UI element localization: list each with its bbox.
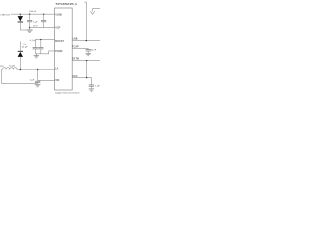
svg-text:LX: LX [55,68,58,71]
node junction VLNB/C1 [29,14,30,15]
svg-text:1 µF: 1 µF [95,86,100,88]
svg-text:1 µF: 1 µF [33,22,38,24]
capacitor C1 100nF VLNB [27,14,32,30]
capacitor C7 VCC 1uF [89,85,94,89]
wire LX net [17,69,55,71]
inductor L1 10uH [2,68,17,70]
wire VCC net [72,78,91,85]
wire VCP net [30,27,55,29]
svg-text:100 nF: 100 nF [29,11,36,13]
diode D2 LX clamp [18,41,23,69]
wire VLNB net top [11,13,55,15]
svg-text:Copyright © 2016, Texas Instru: Copyright © 2016, Texas Instruments [55,92,80,95]
node junction VLNB/C2 [43,14,44,15]
wire VIN left drop [2,70,38,84]
node junction C1/VCP [29,27,30,28]
wire PGND rail [35,51,54,54]
svg-text:EXTM: EXTM [72,58,79,61]
svg-text:LNB: LNB [73,38,78,41]
node junction BOOST/C4 [40,39,41,40]
svg-text:1 µF: 1 µF [30,80,35,82]
ground under C1 [27,30,33,32]
node junction VCC/EXTM [86,77,87,78]
svg-text:22 nF: 22 nF [91,50,97,52]
ground under C3/C4 rail [34,54,40,58]
wire VIN net [38,79,55,81]
svg-text:LNB OUT: LNB OUT [1,14,11,16]
wire LNB vertical to top [84,2,86,41]
svg-text:VCP: VCP [55,27,60,30]
svg-text:22 µF: 22 µF [22,46,28,48]
capacitor C5 input 1uF [35,70,40,84]
capacitor C4 (boost cap) [38,40,43,54]
diode D1 TVS on VLNB [18,14,23,30]
IC U1 TPS65235-1 [55,2,78,90]
wire D1 cathode to ground rail [20,29,32,31]
wire TCAP net [72,47,88,49]
wire LNB net right [72,40,100,42]
svg-text:10 µH: 10 µH [9,66,15,68]
svg-text:16 V: 16 V [33,25,38,27]
ground under C5 [35,85,41,87]
svg-text:VIN: VIN [55,79,59,82]
capacitor C3 (left, 2x22uF) [33,40,38,54]
node junction D2/LX [20,69,21,70]
wire EXTM to VCC [86,61,88,78]
capacitor C2 VCP flying cap [41,14,46,27]
node junction VLNB/D1 [20,14,21,15]
ground under C7 [89,89,95,91]
ground under C6 [85,54,91,56]
svg-text:TPS65235-1: TPS65235-1 [55,2,77,6]
node junction LX/C5 [37,69,38,70]
svg-text:PGND: PGND [55,50,62,53]
node junction EXTM [86,60,87,61]
svg-text:BOOST: BOOST [55,40,64,43]
wire EXTM net [72,60,100,62]
wire BOOST net [35,39,54,41]
svg-text:VLNB: VLNB [55,13,62,16]
svg-text:0.1 µF: 0.1 µF [30,40,37,42]
capacitor C6 TCAP [86,48,91,53]
node LNB OUT arrow [90,9,100,15]
node junction LNB [86,40,87,41]
